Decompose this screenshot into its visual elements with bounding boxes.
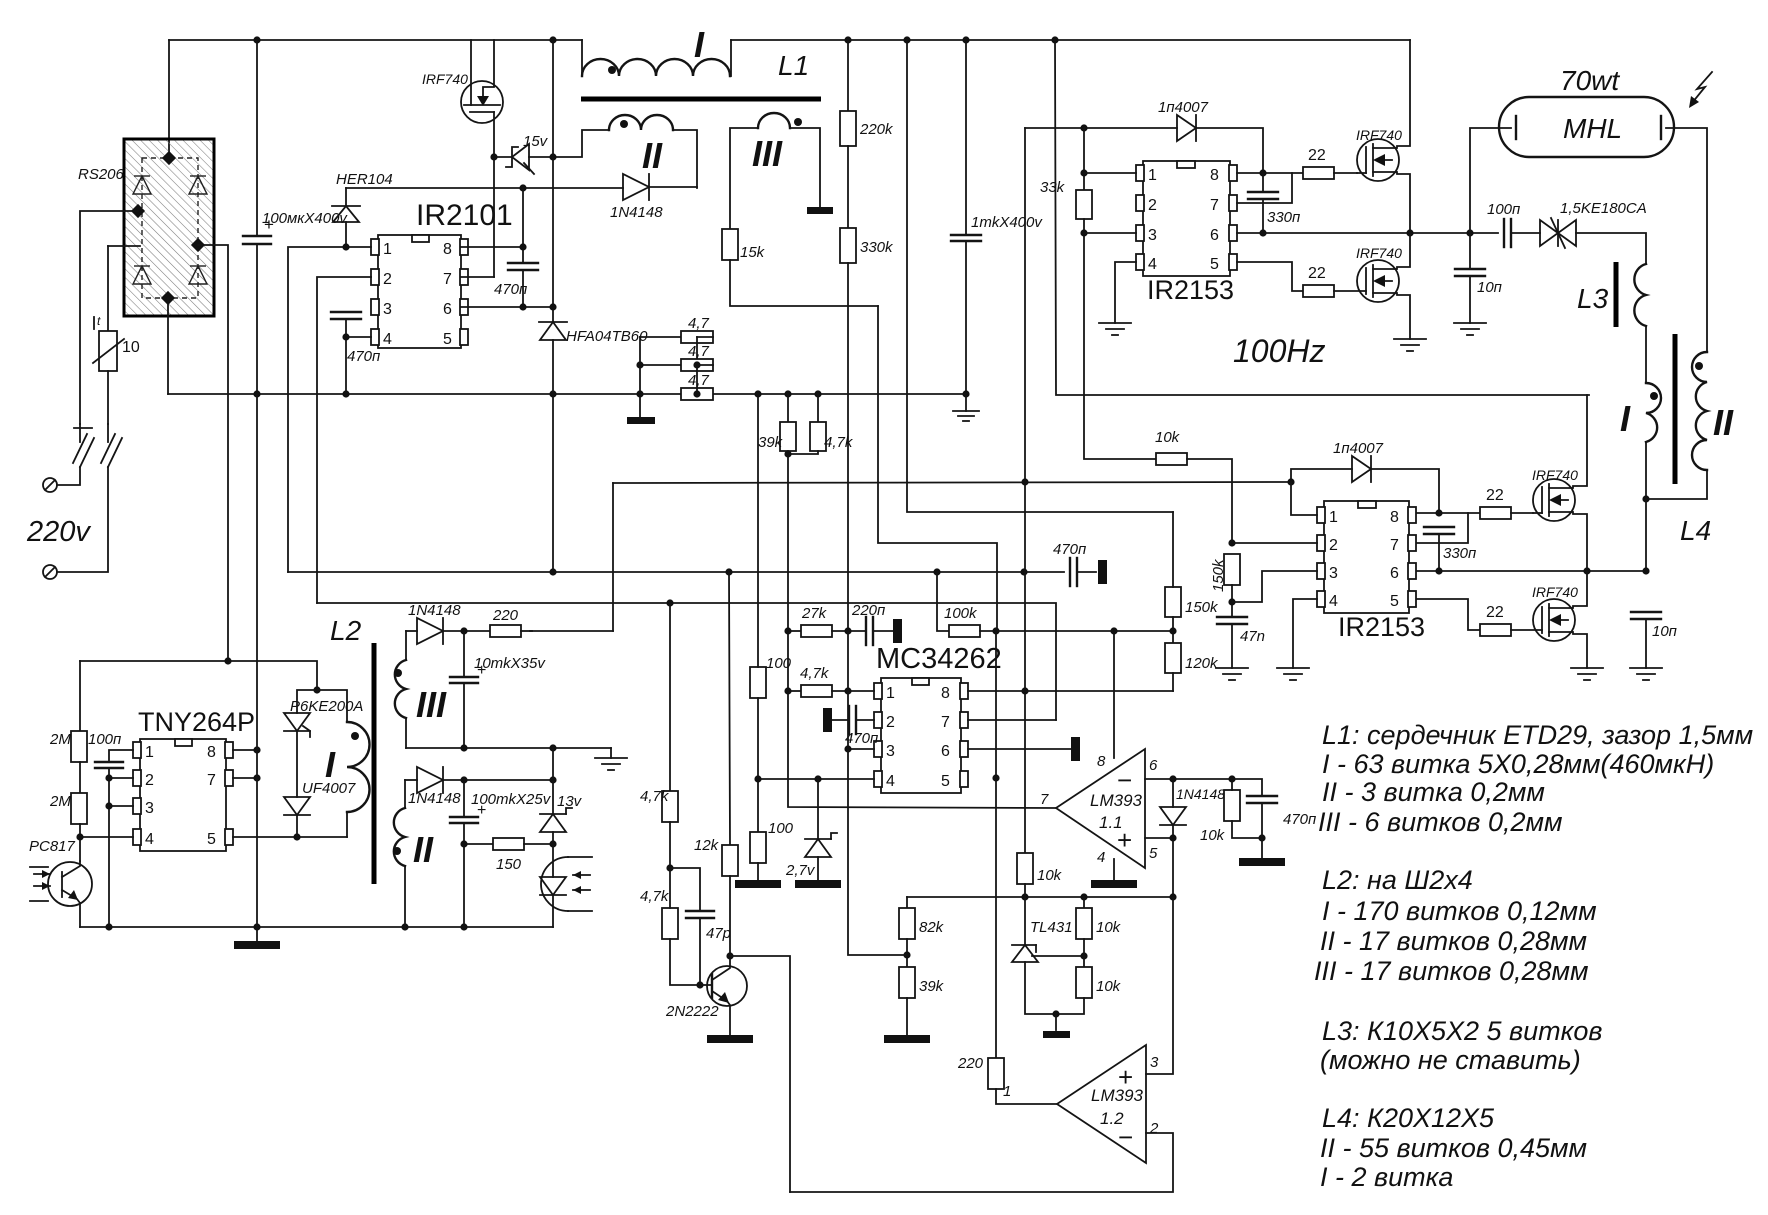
svg-text:L1: L1 xyxy=(778,50,809,81)
svg-text:IRF740: IRF740 xyxy=(422,71,468,87)
wire: riser from 220 feed xyxy=(612,483,614,631)
bridge inner dashed square xyxy=(142,158,198,298)
capacitor 100п xyxy=(1487,201,1540,247)
resistor 10k feedback xyxy=(1200,779,1262,844)
transformer L2 winding III xyxy=(394,631,447,748)
ground bar under L1 winding III xyxy=(807,207,833,214)
resistor 2M upper xyxy=(49,731,87,793)
svg-text:22: 22 xyxy=(1308,265,1326,282)
wire: top HV bus left segment xyxy=(169,39,582,41)
transformer L1 winding III xyxy=(730,113,820,229)
capacitor 1mkX400v xyxy=(951,40,1043,394)
wire: primary row W661 xyxy=(80,661,317,690)
junction dot: y188 bootstrap riser xyxy=(519,184,526,191)
terminal bar 470n xyxy=(1098,560,1107,584)
svg-text:2: 2 xyxy=(1148,197,1157,214)
svg-text:II - 3 витка 0,2мм: II - 3 витка 0,2мм xyxy=(1322,777,1545,807)
junction dot: W898 diode chain xyxy=(1169,893,1176,900)
svg-text:4: 4 xyxy=(886,773,895,790)
svg-text:10k: 10k xyxy=(1096,919,1122,936)
svg-text:3: 3 xyxy=(1329,565,1338,582)
wire: divider bottom to vcc rail xyxy=(1025,690,1173,692)
svg-text:1: 1 xyxy=(383,241,392,258)
svg-text:IR2101: IR2101 xyxy=(416,199,513,232)
svg-text:6: 6 xyxy=(443,301,452,318)
junction dot: HFA04 riser on bus xyxy=(549,36,556,43)
junction dot: 10mk35 top xyxy=(460,627,467,634)
transformer L1 winding II xyxy=(553,115,697,188)
terminal bar 470п pin2 xyxy=(823,708,832,732)
wire: pin4 to ground xyxy=(1115,262,1136,323)
svg-text:150k: 150k xyxy=(1210,558,1227,592)
junction dot: 82k 39k tap xyxy=(903,951,910,958)
svg-text:III: III xyxy=(752,133,783,174)
junction dot: 13v top xyxy=(549,776,556,783)
diode 1N4148 comp xyxy=(1160,779,1225,898)
svg-text:1N4148: 1N4148 xyxy=(610,204,663,221)
svg-text:4,7k: 4,7k xyxy=(824,434,854,451)
svg-text:4: 4 xyxy=(145,831,154,848)
resistors 4,7 x3 parallel xyxy=(640,315,713,417)
junction dot: pin6 cap xyxy=(519,303,526,310)
wire: lamp left lead xyxy=(1470,128,1511,233)
svg-text:22: 22 xyxy=(1308,147,1326,164)
resistor 12k xyxy=(694,572,738,956)
wire: pin1 vcc xyxy=(1291,482,1317,515)
svg-text:L4: К20Х12Х5: L4: К20Х12Х5 xyxy=(1322,1103,1495,1133)
junction dot: W661 RS206 rail xyxy=(224,657,231,664)
svg-text:7: 7 xyxy=(1390,537,1399,554)
junction dot: 27k left xyxy=(784,627,791,634)
svg-text:4,7: 4,7 xyxy=(688,372,710,389)
resistor 22 gate M4 xyxy=(1480,604,1542,636)
wire: divider tap row to 150k chain xyxy=(996,630,1173,632)
transistor IRF740 M4 xyxy=(1532,571,1587,668)
svg-text:I - 63 витка 5X0,28мм(460мкН): I - 63 витка 5X0,28мм(460мкН) xyxy=(1322,749,1714,779)
transformer L2 winding II xyxy=(393,780,434,927)
wire: comp1 vminus to ground bar xyxy=(1113,859,1115,880)
capacitor 470п comp xyxy=(1232,779,1316,858)
junction dot: sense riser on bus xyxy=(903,36,910,43)
resistor 22 gate M1 xyxy=(1303,147,1357,179)
svg-text:1mkX400v: 1mkX400v xyxy=(971,214,1043,231)
svg-text:L3: К10Х5Х2 5 витков: L3: К10Х5Х2 5 витков xyxy=(1322,1016,1603,1046)
resistor 120k divider xyxy=(1165,643,1219,691)
junction dot: x996 pin5 xyxy=(992,774,999,781)
IC MC34262 xyxy=(874,643,1002,793)
junction dot: clamp bottom xyxy=(293,833,300,840)
svg-text:10k: 10k xyxy=(1037,867,1063,884)
capacitor 100мкX400v xyxy=(243,40,348,394)
svg-text:2M: 2M xyxy=(49,731,71,748)
junction dot: x1025 at W482 xyxy=(1021,478,1028,485)
svg-text:+: + xyxy=(264,215,274,234)
IC IR2153 second xyxy=(1317,501,1425,642)
junction dot: 100mk25 top xyxy=(460,776,467,783)
svg-text:2: 2 xyxy=(1149,1120,1159,1137)
svg-text:5: 5 xyxy=(207,831,216,848)
svg-text:47p: 47p xyxy=(706,925,731,942)
svg-text:HER104: HER104 xyxy=(336,171,393,188)
zener 15v xyxy=(494,133,553,174)
svg-text:2M: 2M xyxy=(49,793,71,810)
wire: pin8 xyxy=(461,246,523,248)
svg-text:2: 2 xyxy=(886,714,895,731)
svg-text:L1: сердечник ETD29, зазор 1,: L1: сердечник ETD29, зазор 1,5мм xyxy=(1322,720,1753,750)
svg-text:15k: 15k xyxy=(740,244,766,261)
svg-text:I: I xyxy=(325,744,336,785)
svg-text:100п: 100п xyxy=(1487,201,1520,218)
wire: comp1 vplus riser xyxy=(1113,631,1115,758)
resistor 220k xyxy=(840,40,894,228)
junction dot: W898 vcc10k xyxy=(1021,893,1028,900)
resistor 100k xyxy=(937,572,996,637)
terminal bar 220п xyxy=(893,619,902,643)
wire: 13v riser xyxy=(552,748,554,780)
junction dot: 1mk cap on bus xyxy=(962,36,969,43)
svg-text:220: 220 xyxy=(492,607,519,624)
junction dot: VS2 L4 xyxy=(1642,567,1649,574)
wire: x996 drop to comparator xyxy=(995,631,997,1058)
resistor 4,7k pullup xyxy=(784,390,853,457)
junction dot: VS2 330п xyxy=(1435,567,1442,574)
junction dot: pin2 150k xyxy=(1228,539,1235,546)
junction dot: pin8 rail xyxy=(253,746,260,753)
resistor 10k tl upper xyxy=(1076,897,1122,967)
wire: pin6 drive row xyxy=(968,748,1071,750)
transformer L1 core xyxy=(581,97,821,102)
svg-text:MHL: MHL xyxy=(1563,113,1622,144)
svg-text:5: 5 xyxy=(1149,845,1158,862)
svg-text:6: 6 xyxy=(1390,565,1399,582)
svg-text:82k: 82k xyxy=(919,919,945,936)
terminal bar pin6 xyxy=(1071,737,1080,761)
wire: pin8 row xyxy=(1417,512,1480,514)
zener 2,7v xyxy=(785,779,837,880)
svg-text:IRF740: IRF740 xyxy=(1532,467,1578,483)
diode 1N4148 winding II rectifier xyxy=(610,174,697,221)
junction dot: pin4 cap xyxy=(342,333,349,340)
junction dot: VS lamp branch xyxy=(1466,229,1473,236)
svg-text:2N2222: 2N2222 xyxy=(665,1003,719,1020)
wire: pin3 xyxy=(109,805,133,807)
svg-text:4,7: 4,7 xyxy=(688,343,710,360)
svg-text:2: 2 xyxy=(383,271,392,288)
ground bar under 2,7v xyxy=(795,880,841,888)
wire: pin4 row xyxy=(80,836,133,838)
junction dot: collector node xyxy=(726,952,733,959)
junction dot: inv 1N4148 xyxy=(1169,775,1176,782)
transformer L1 winding I xyxy=(582,24,731,76)
bridge diode D1 xyxy=(133,176,151,194)
ignition lightning arrow xyxy=(1689,72,1712,108)
capacitor 10п snubber xyxy=(1455,233,1502,323)
junction dots: 4,7 ladder xyxy=(636,361,643,368)
svg-text:220: 220 xyxy=(957,1055,984,1072)
junction dot: pin4 zener xyxy=(814,775,821,782)
svg-text:1: 1 xyxy=(145,744,154,761)
svg-text:L2: L2 xyxy=(330,615,362,646)
svg-text:3: 3 xyxy=(1150,1054,1159,1071)
svg-text:1: 1 xyxy=(1329,509,1338,526)
diode HFA04TB60 xyxy=(539,322,648,394)
svg-text:+: + xyxy=(477,802,486,819)
capacitor 470п at pin4 xyxy=(331,312,380,394)
resistor 22 gate M3 xyxy=(1480,487,1533,519)
wire: 15v supply row W482 xyxy=(613,482,1291,483)
wire: divider chain into pin3 xyxy=(848,631,874,749)
junction dot: 15v right rail xyxy=(549,153,556,160)
wire: pin7 gate riser xyxy=(1237,173,1292,203)
svg-text:4: 4 xyxy=(1097,849,1105,866)
svg-text:4: 4 xyxy=(383,331,392,348)
svg-text:330п: 330п xyxy=(1443,545,1476,562)
junction dot: source 15v xyxy=(490,153,497,160)
junction dot: W927 L2 II xyxy=(401,923,408,930)
comparator LM393 1.2 xyxy=(1003,1045,1159,1163)
wire: tap to x849 riser xyxy=(848,749,907,955)
svg-text:MC34262: MC34262 xyxy=(876,643,1002,675)
resistor 150 xyxy=(464,838,553,873)
junction dot: neg rail 100 riser xyxy=(754,390,761,397)
comparator LM393 1.1 xyxy=(1040,749,1158,868)
junction dot: W927 tny source rail xyxy=(253,923,260,930)
inductor L3 xyxy=(1577,264,1646,383)
transistor 2N2222 xyxy=(665,956,747,1035)
junction dot: 27k right node xyxy=(844,627,851,634)
optocoupler LED side xyxy=(540,844,592,927)
wire: pin8 source rail xyxy=(233,749,257,751)
svg-text:5: 5 xyxy=(1390,593,1399,610)
svg-text:470п: 470п xyxy=(1283,811,1316,828)
svg-text:4,7k: 4,7k xyxy=(640,788,670,805)
svg-text:100п: 100п xyxy=(88,731,121,748)
junction dot: tl431 bottom xyxy=(1052,1010,1059,1017)
resistor 330k xyxy=(840,228,894,631)
junction dot: VS 330п xyxy=(1259,229,1266,236)
TVS 1,5KE180CA xyxy=(1540,200,1647,264)
terminal: mains N xyxy=(43,565,57,579)
svg-text:10: 10 xyxy=(122,339,140,356)
wire: pin8 vcc row xyxy=(968,690,1025,692)
optocoupler PC817 phototransistor xyxy=(29,838,92,927)
capacitor 10mkX35v xyxy=(450,631,546,748)
junction dot: plus diode xyxy=(1169,834,1176,841)
junction dot: neg rail HER104 riser xyxy=(342,390,349,397)
wire: pin7 xyxy=(233,777,257,779)
svg-text:100: 100 xyxy=(768,820,794,837)
transformer L4 winding II xyxy=(1646,352,1734,499)
svg-text:1: 1 xyxy=(1003,1083,1011,1100)
wire: pin6 VS row xyxy=(461,306,553,308)
junction dot: 100mk cap top on bus xyxy=(253,36,260,43)
svg-text:10k: 10k xyxy=(1200,827,1226,844)
capacitor 330п second xyxy=(1424,527,1476,571)
terminal: mains L xyxy=(43,478,57,492)
svg-text:4,7k: 4,7k xyxy=(800,665,830,682)
wire: VCC bootstrap row y188 xyxy=(346,187,623,189)
capacitor 470n on W572 xyxy=(1053,541,1096,586)
svg-text:L3: L3 xyxy=(1577,283,1609,314)
svg-text:470п: 470п xyxy=(494,281,527,298)
wire: sense riser from bus to 150k chain xyxy=(907,40,1173,512)
svg-text:7: 7 xyxy=(443,271,452,288)
svg-text:7: 7 xyxy=(1210,197,1219,214)
svg-text:47n: 47n xyxy=(1240,628,1265,645)
resistor 27k xyxy=(788,605,866,637)
junction dot: vplus tap xyxy=(1110,627,1117,634)
svg-text:470п: 470п xyxy=(1053,541,1086,558)
junction dot: neg rail 100mk xyxy=(253,390,260,397)
wire: pin6 VS2 row xyxy=(1417,570,1646,572)
svg-text:15v: 15v xyxy=(523,133,549,150)
svg-text:8: 8 xyxy=(207,744,216,761)
bridge diode D4 xyxy=(189,266,207,284)
svg-text:IRF740: IRF740 xyxy=(1532,584,1578,600)
svg-text:I: I xyxy=(694,24,705,65)
transformer L4 winding I xyxy=(1620,383,1661,499)
wire: pin4 xyxy=(346,336,371,338)
svg-text:330k: 330k xyxy=(860,239,894,256)
resistor 4,7k pin1 xyxy=(788,665,874,697)
junction dot: pin6 rail xyxy=(549,303,556,310)
ground bar comp1 xyxy=(1091,880,1137,888)
core bar L3 xyxy=(1614,262,1619,327)
ground under M2 xyxy=(1394,339,1426,351)
svg-text:220п: 220п xyxy=(851,602,885,619)
ground under pin4 xyxy=(1099,323,1131,335)
ground under 1mk xyxy=(953,394,979,421)
node dot: L2 primary top xyxy=(313,686,320,693)
negative rail wire y394 xyxy=(168,393,966,395)
svg-text:10п: 10п xyxy=(1477,279,1502,296)
svg-text:120k: 120k xyxy=(1185,655,1219,672)
junction dot: W927 100mk25 xyxy=(460,923,467,930)
wire: bootstrap riser x523 xyxy=(522,188,524,263)
junction dot: 1mk bottom xyxy=(962,390,969,397)
lamp MHL 70wt xyxy=(1499,65,1674,157)
wire: comp1 inv input row xyxy=(1145,778,1232,780)
svg-text:+: + xyxy=(477,662,486,679)
svg-text:1,5KE180CA: 1,5KE180CA xyxy=(1560,200,1647,217)
junction dot: W572 vcc riser xyxy=(1020,568,1027,575)
transformer L2 core xyxy=(372,643,377,884)
wire: pin7 row to comparator xyxy=(968,719,1056,721)
wire: pin5 drain row xyxy=(233,836,347,838)
junction dot: pin7 rail xyxy=(253,774,260,781)
junction dot: W482 end xyxy=(1287,478,1294,485)
switch pole 2 xyxy=(57,424,122,572)
svg-text:I - 170 витков 0,12мм: I - 170 витков 0,12мм xyxy=(1322,896,1597,926)
svg-text:II - 17 витков 0,28мм: II - 17 витков 0,28мм xyxy=(1320,926,1587,956)
svg-text:PC817: PC817 xyxy=(29,838,76,855)
bridge rectifier RS206 box with hatch xyxy=(78,139,214,316)
svg-text:7: 7 xyxy=(1040,791,1049,808)
junction dot: x1025 at pin8 row xyxy=(1021,687,1028,694)
junction dot: 150 right xyxy=(549,840,556,847)
svg-text:1: 1 xyxy=(1148,167,1157,184)
resistor 82k xyxy=(899,897,945,967)
svg-text:4,7: 4,7 xyxy=(688,315,710,332)
junction dot: W572 HFA04 rail xyxy=(549,568,556,575)
wire: bridge minus output down xyxy=(167,298,169,394)
junction dot: tl431 ref xyxy=(1080,952,1087,959)
svg-text:1п4007: 1п4007 xyxy=(1158,99,1209,116)
junction dot: 47p base xyxy=(696,981,703,988)
ground under 10п second xyxy=(1630,668,1662,680)
junction dot: pin3 xyxy=(105,802,112,809)
svg-text:5: 5 xyxy=(1210,256,1219,273)
junction dot: VS M1 source xyxy=(1406,229,1413,236)
transistor IRF740 M1 xyxy=(1356,40,1410,233)
resistor 33k xyxy=(1040,128,1156,459)
core bar L4 xyxy=(1673,334,1678,484)
svg-text:III - 6 витков 0,2мм: III - 6 витков 0,2мм xyxy=(1318,807,1563,837)
svg-text:L2: на Ш2х4: L2: на Ш2х4 xyxy=(1322,865,1473,895)
svg-text:5: 5 xyxy=(941,773,950,790)
junction dot: base divider xyxy=(666,864,673,871)
capacitor 47n xyxy=(1217,617,1265,668)
junction dot: 33k riser top xyxy=(1080,124,1087,131)
diode 1N4148 winding II rect xyxy=(405,767,553,807)
wire: source rail x257 xyxy=(256,394,258,927)
switch pole 1 xyxy=(57,424,94,485)
svg-text:150k: 150k xyxy=(1185,599,1219,616)
svg-text:TL431: TL431 xyxy=(1030,919,1073,936)
diode 1п4007 xyxy=(1158,99,1263,173)
resistor 39k lower xyxy=(899,967,945,1035)
svg-text:II - 55 витков 0,45мм: II - 55 витков 0,45мм xyxy=(1320,1133,1587,1163)
junction dot: 13v rail riser xyxy=(549,744,556,751)
resistor 39k xyxy=(758,390,1056,808)
svg-text:100Hz: 100Hz xyxy=(1233,333,1326,369)
node: bridge bottom xyxy=(161,291,175,305)
wire: pin8 row xyxy=(1237,172,1303,174)
transistor IRF740 M2 xyxy=(1356,233,1410,339)
ground bar 470п comp xyxy=(1239,858,1285,866)
wire: ground rail W927 xyxy=(80,926,553,928)
ground under M4 xyxy=(1571,668,1603,680)
wire: pin2 riser down xyxy=(317,277,371,603)
ground bar on W927 xyxy=(234,927,280,949)
resistor 150k divider xyxy=(1165,512,1219,643)
svg-text:22: 22 xyxy=(1486,604,1504,621)
wire: IR2153 Vcc row y128 xyxy=(1025,127,1177,129)
svg-text:70wt: 70wt xyxy=(1560,65,1620,96)
svg-text:2: 2 xyxy=(145,772,154,789)
junction dot: 4,7k right pin1 xyxy=(844,687,851,694)
svg-text:RS206: RS206 xyxy=(78,166,125,183)
IC IR2101 xyxy=(371,199,513,348)
svg-text:1N4148: 1N4148 xyxy=(408,790,461,807)
junction dot: pin8 330п xyxy=(1259,169,1266,176)
junction dot: neg rail HFA04 riser xyxy=(549,390,556,397)
svg-text:100: 100 xyxy=(766,655,792,672)
wire: collector to comparator 1.2 xyxy=(730,956,790,1192)
svg-text:10k: 10k xyxy=(1155,429,1181,446)
capacitor 330п bootstrap1 xyxy=(1248,173,1300,233)
wire: hysteresis row W898 xyxy=(907,896,1173,898)
svg-text:III - 17 витков 0,28мм: III - 17 витков 0,28мм xyxy=(1314,956,1589,986)
junction dot: pin1 HER104 xyxy=(342,243,349,250)
svg-text:8: 8 xyxy=(1210,167,1219,184)
diode P6KE200A clamp xyxy=(284,690,363,797)
svg-text:II: II xyxy=(413,829,434,870)
svg-text:39k: 39k xyxy=(758,434,784,451)
wire: comp2 minus loop xyxy=(790,1133,1173,1192)
svg-text:−: − xyxy=(1118,1122,1133,1152)
winding note text block xyxy=(1314,720,1753,1192)
